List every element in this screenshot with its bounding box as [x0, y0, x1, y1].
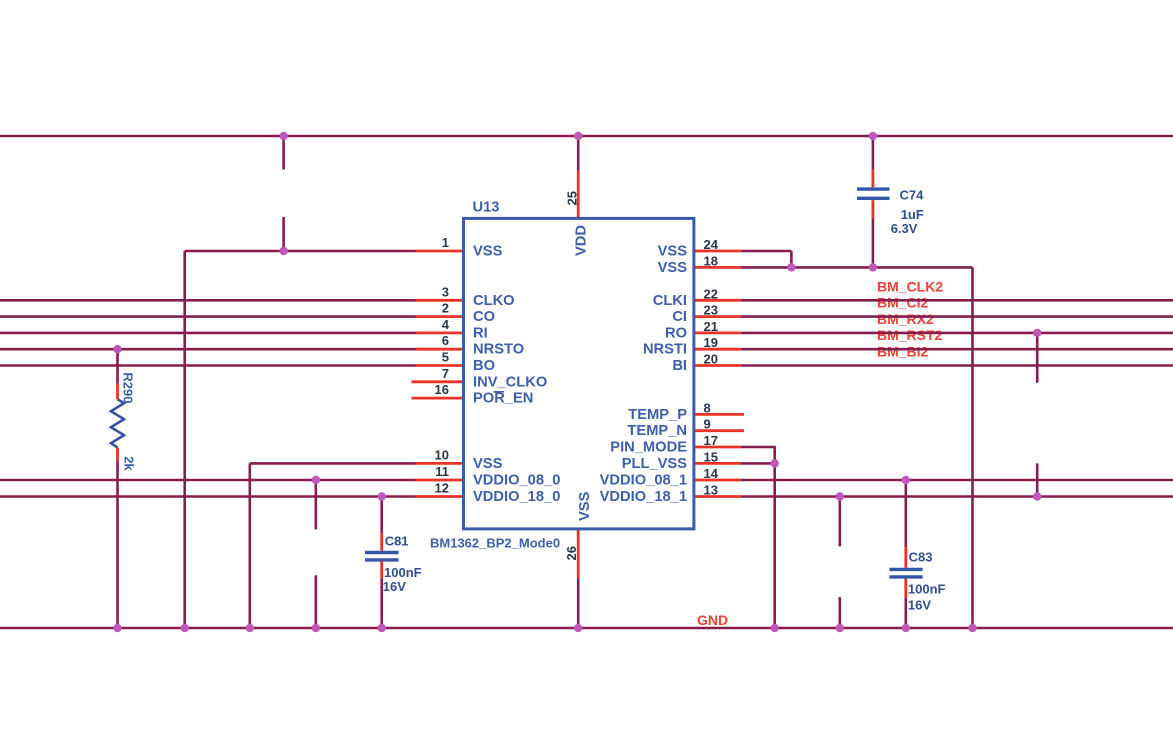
wire VDD vertical: [577, 136, 580, 170]
wire RI bus left: [0, 332, 417, 335]
junction GND x250: [246, 624, 254, 632]
svg-text:RI: RI: [473, 325, 488, 341]
svg-text:26: 26: [564, 546, 579, 560]
wire vertical stub x840 upper: [838, 497, 841, 547]
wire C74 top vertical: [872, 136, 875, 170]
pin 16 stub: [412, 397, 466, 400]
svg-text:14: 14: [704, 466, 719, 481]
pin 23 stub: [693, 315, 741, 318]
svg-text:BM1362_BP2_Mode0: BM1362_BP2_Mode0: [430, 536, 560, 551]
wire VDDIO_18_0 bus left: [0, 495, 417, 498]
svg-text:CI: CI: [672, 309, 687, 325]
junction x1037 RO wire: [1033, 329, 1041, 337]
wire pin15 PLL_VSS horizontal: [741, 462, 775, 465]
pin 3 stub: [416, 299, 466, 302]
svg-text:CLKI: CLKI: [653, 293, 687, 309]
svg-text:1uF: 1uF: [901, 207, 924, 222]
junction x791 pin18 wire: [787, 263, 795, 271]
svg-text:24: 24: [704, 237, 719, 252]
junction C83 top: [902, 476, 910, 484]
pin 24 stub: [693, 250, 741, 253]
svg-text:VDDIO_18_1: VDDIO_18_1: [600, 489, 687, 505]
wire C81 bottom vertical: [380, 578, 383, 628]
svg-text:100nF: 100nF: [908, 582, 946, 597]
wire pin1 VSS horizontal: [185, 250, 417, 253]
capacitor C83 plates: [889, 569, 922, 577]
wire vertical stub x316 upper: [314, 480, 317, 529]
wire CLKO bus left: [0, 299, 417, 302]
svg-text:VSS: VSS: [473, 244, 503, 260]
pin 1 stub: [416, 250, 466, 253]
capacitor C83 bottom lead: [904, 579, 907, 598]
overline on R of POR_EN: [494, 391, 505, 393]
svg-text:15: 15: [704, 449, 718, 464]
wire vertical x791 pin24 drop: [790, 251, 793, 267]
svg-text:VDDIO_08_1: VDDIO_08_1: [600, 473, 687, 489]
capacitor C74 plates: [857, 189, 890, 198]
wire vertical stub x316 lower: [314, 575, 317, 628]
svg-text:21: 21: [704, 319, 718, 334]
svg-text:CO: CO: [473, 309, 495, 325]
resistor R290 bottom lead: [116, 448, 119, 461]
junction x578 top rail: [574, 132, 582, 140]
pin 25 stub VDD: [577, 170, 580, 220]
capacitor C81 top lead: [380, 533, 383, 551]
junction x316 VDDIO_08_0 wire: [312, 476, 320, 484]
wire vertical stub x283 lower: [282, 217, 285, 251]
wire CO bus left: [0, 315, 417, 318]
wire vertical x775 to GND: [773, 447, 776, 628]
junction GND x906: [902, 624, 910, 632]
svg-text:VSS: VSS: [658, 260, 688, 276]
wire GND rail: [0, 627, 1173, 630]
svg-text:VSS: VSS: [658, 244, 688, 260]
svg-text:6.3V: 6.3V: [891, 221, 918, 236]
junction x1037 VDDIO_18_1 wire: [1033, 492, 1041, 500]
junction x775 pin15 wire: [771, 459, 779, 467]
pin 6 stub: [416, 348, 466, 351]
svg-text:6: 6: [442, 333, 449, 348]
svg-text:TEMP_N: TEMP_N: [627, 423, 687, 439]
svg-text:C74: C74: [900, 188, 925, 203]
capacitor C81 bottom lead: [380, 562, 383, 579]
pin 22 stub: [693, 299, 741, 302]
svg-text:16V: 16V: [383, 579, 406, 594]
junction x283 pin1 wire: [279, 247, 287, 255]
wire BO bus left: [0, 364, 417, 367]
wire C74 bottom vertical: [872, 219, 875, 268]
resistor R290 top lead: [116, 384, 119, 399]
wire vertical x972 to GND: [971, 267, 974, 628]
junction GND x972: [968, 624, 976, 632]
wire C83 top vertical: [904, 480, 907, 547]
capacitor C81 plates: [365, 553, 399, 560]
wire pin26 VSS vertical to GND: [577, 579, 580, 629]
pin 19 stub: [693, 348, 741, 351]
wire pin17 PIN_MODE horizontal: [741, 446, 776, 449]
junction GND x382: [378, 624, 386, 632]
capacitor C74 bottom lead: [872, 200, 875, 218]
pin 11 stub: [416, 479, 466, 482]
svg-text:VDDIO_08_0: VDDIO_08_0: [473, 473, 560, 489]
wire RO bus right BM_RX2: [741, 332, 1173, 335]
svg-text:23: 23: [704, 303, 718, 318]
pin 9 stub: [693, 429, 744, 432]
svg-text:U13: U13: [473, 200, 500, 216]
pin 17 stub: [693, 446, 741, 449]
junction x873 top rail: [869, 132, 877, 140]
pin 26 stub VSS: [577, 528, 580, 579]
svg-text:BI: BI: [672, 358, 687, 374]
svg-text:NRSTO: NRSTO: [473, 342, 524, 358]
wire NRSTO bus left: [0, 348, 417, 351]
wire vertical stub x1037 upper: [1036, 333, 1039, 383]
svg-text:7: 7: [442, 366, 449, 381]
resistor R290 zigzag: [111, 399, 124, 447]
pin 4 stub: [416, 331, 466, 334]
junction GND x578: [574, 624, 582, 632]
svg-text:VSS: VSS: [473, 456, 503, 472]
pin 13 stub: [693, 495, 741, 498]
svg-text:10: 10: [435, 447, 449, 462]
svg-text:100nF: 100nF: [384, 565, 422, 580]
svg-text:5: 5: [442, 350, 449, 365]
pin 7 stub: [412, 380, 466, 383]
svg-text:BM_BI2: BM_BI2: [877, 344, 929, 360]
svg-text:2k: 2k: [122, 456, 137, 471]
svg-text:BM_CI2: BM_CI2: [877, 295, 929, 311]
svg-text:11: 11: [435, 464, 449, 479]
svg-text:C81: C81: [385, 534, 409, 549]
svg-text:VDDIO_18_0: VDDIO_18_0: [473, 489, 560, 505]
capacitor C83 top lead: [904, 547, 907, 567]
junction GND x316: [312, 624, 320, 632]
wire vertical x250 pin10 to GND: [249, 463, 252, 628]
wire NRSTI bus right BM_RST2: [741, 348, 1173, 351]
pin 14 stub: [693, 479, 741, 482]
svg-text:GND: GND: [697, 612, 728, 628]
wire C83 bottom vertical: [904, 598, 907, 628]
svg-text:BM_RX2: BM_RX2: [877, 311, 934, 327]
svg-text:BO: BO: [473, 358, 495, 374]
junction GND x117: [113, 624, 121, 632]
svg-text:VSS: VSS: [577, 491, 593, 521]
svg-text:20: 20: [704, 352, 718, 367]
svg-text:3: 3: [442, 284, 449, 299]
svg-text:BM_CLK2: BM_CLK2: [877, 278, 943, 294]
junction GND x185: [181, 624, 189, 632]
wire vertical stub x1037 lower: [1036, 463, 1039, 496]
junction x283 top rail: [279, 132, 287, 140]
svg-text:NRSTI: NRSTI: [643, 342, 687, 358]
wire vertical stub x840 lower: [838, 597, 841, 628]
pin 8 stub: [693, 413, 744, 416]
IC U13 BM1362_BP2_Mode0 body: [464, 218, 694, 529]
svg-text:9: 9: [704, 417, 711, 432]
svg-text:19: 19: [704, 335, 718, 350]
svg-text:1: 1: [442, 235, 449, 250]
svg-text:C83: C83: [909, 550, 933, 565]
svg-text:2: 2: [442, 301, 449, 316]
pin 12 stub: [416, 495, 466, 498]
svg-text:R290: R290: [121, 372, 136, 403]
pin 20 stub: [693, 364, 741, 367]
pin 18 stub: [693, 266, 741, 269]
pin 10 stub: [416, 462, 466, 465]
svg-text:17: 17: [704, 433, 718, 448]
svg-text:TEMP_P: TEMP_P: [628, 407, 687, 423]
svg-text:VDD: VDD: [574, 225, 590, 256]
pin 2 stub: [416, 315, 466, 318]
svg-text:POR_EN: POR_EN: [473, 391, 533, 407]
svg-text:22: 22: [704, 286, 718, 301]
svg-text:BM_RST2: BM_RST2: [877, 327, 943, 343]
wire CLKI bus right BM_CLK2: [741, 299, 1173, 302]
wire pin24 VSS horizontal: [741, 250, 792, 253]
wire vertical stub x283 upper: [282, 136, 285, 170]
svg-text:PIN_MODE: PIN_MODE: [610, 440, 687, 456]
svg-text:18: 18: [704, 253, 718, 268]
svg-text:25: 25: [565, 191, 580, 205]
junction C81 top: [378, 492, 386, 500]
wire C81 top vertical: [380, 497, 383, 534]
junction x840 VDDIO_18_1 wire: [836, 492, 844, 500]
junction GND x840: [836, 624, 844, 632]
wire CI bus right BM_CI2: [741, 315, 1173, 318]
svg-text:CLKO: CLKO: [473, 293, 515, 309]
svg-text:13: 13: [704, 483, 718, 498]
svg-text:PLL_VSS: PLL_VSS: [622, 456, 688, 472]
svg-text:16: 16: [435, 382, 449, 397]
junction R290 top: [113, 345, 121, 353]
pin 21 stub: [693, 331, 741, 334]
pin 5 stub: [416, 364, 466, 367]
svg-text:4: 4: [442, 317, 450, 332]
wire BI bus right BM_BI2: [741, 364, 1173, 367]
wire VDDIO_08_0 bus left: [0, 479, 417, 482]
pin 15 stub: [693, 462, 741, 465]
junction GND x775: [771, 624, 779, 632]
wire pin18 VSS horizontal: [741, 266, 973, 269]
svg-text:INV_CLKO: INV_CLKO: [473, 374, 547, 390]
wire VDDIO_18_1 bus right: [741, 495, 1173, 498]
junction x873 pin18 wire: [869, 263, 877, 271]
svg-text:12: 12: [435, 481, 449, 496]
wire VDD top rail: [0, 135, 1173, 138]
wire R290 bottom vertical to GND: [116, 461, 119, 628]
wire vertical x185 pin1 to GND: [183, 251, 186, 628]
wire R290 top vertical: [116, 349, 119, 384]
capacitor C74 top lead: [872, 170, 875, 188]
svg-text:RO: RO: [665, 325, 687, 341]
svg-text:16V: 16V: [908, 598, 931, 613]
wire pin10 VSS horizontal: [250, 462, 417, 465]
wire VDDIO_08_1 bus right: [741, 479, 1173, 482]
svg-text:8: 8: [704, 400, 711, 415]
